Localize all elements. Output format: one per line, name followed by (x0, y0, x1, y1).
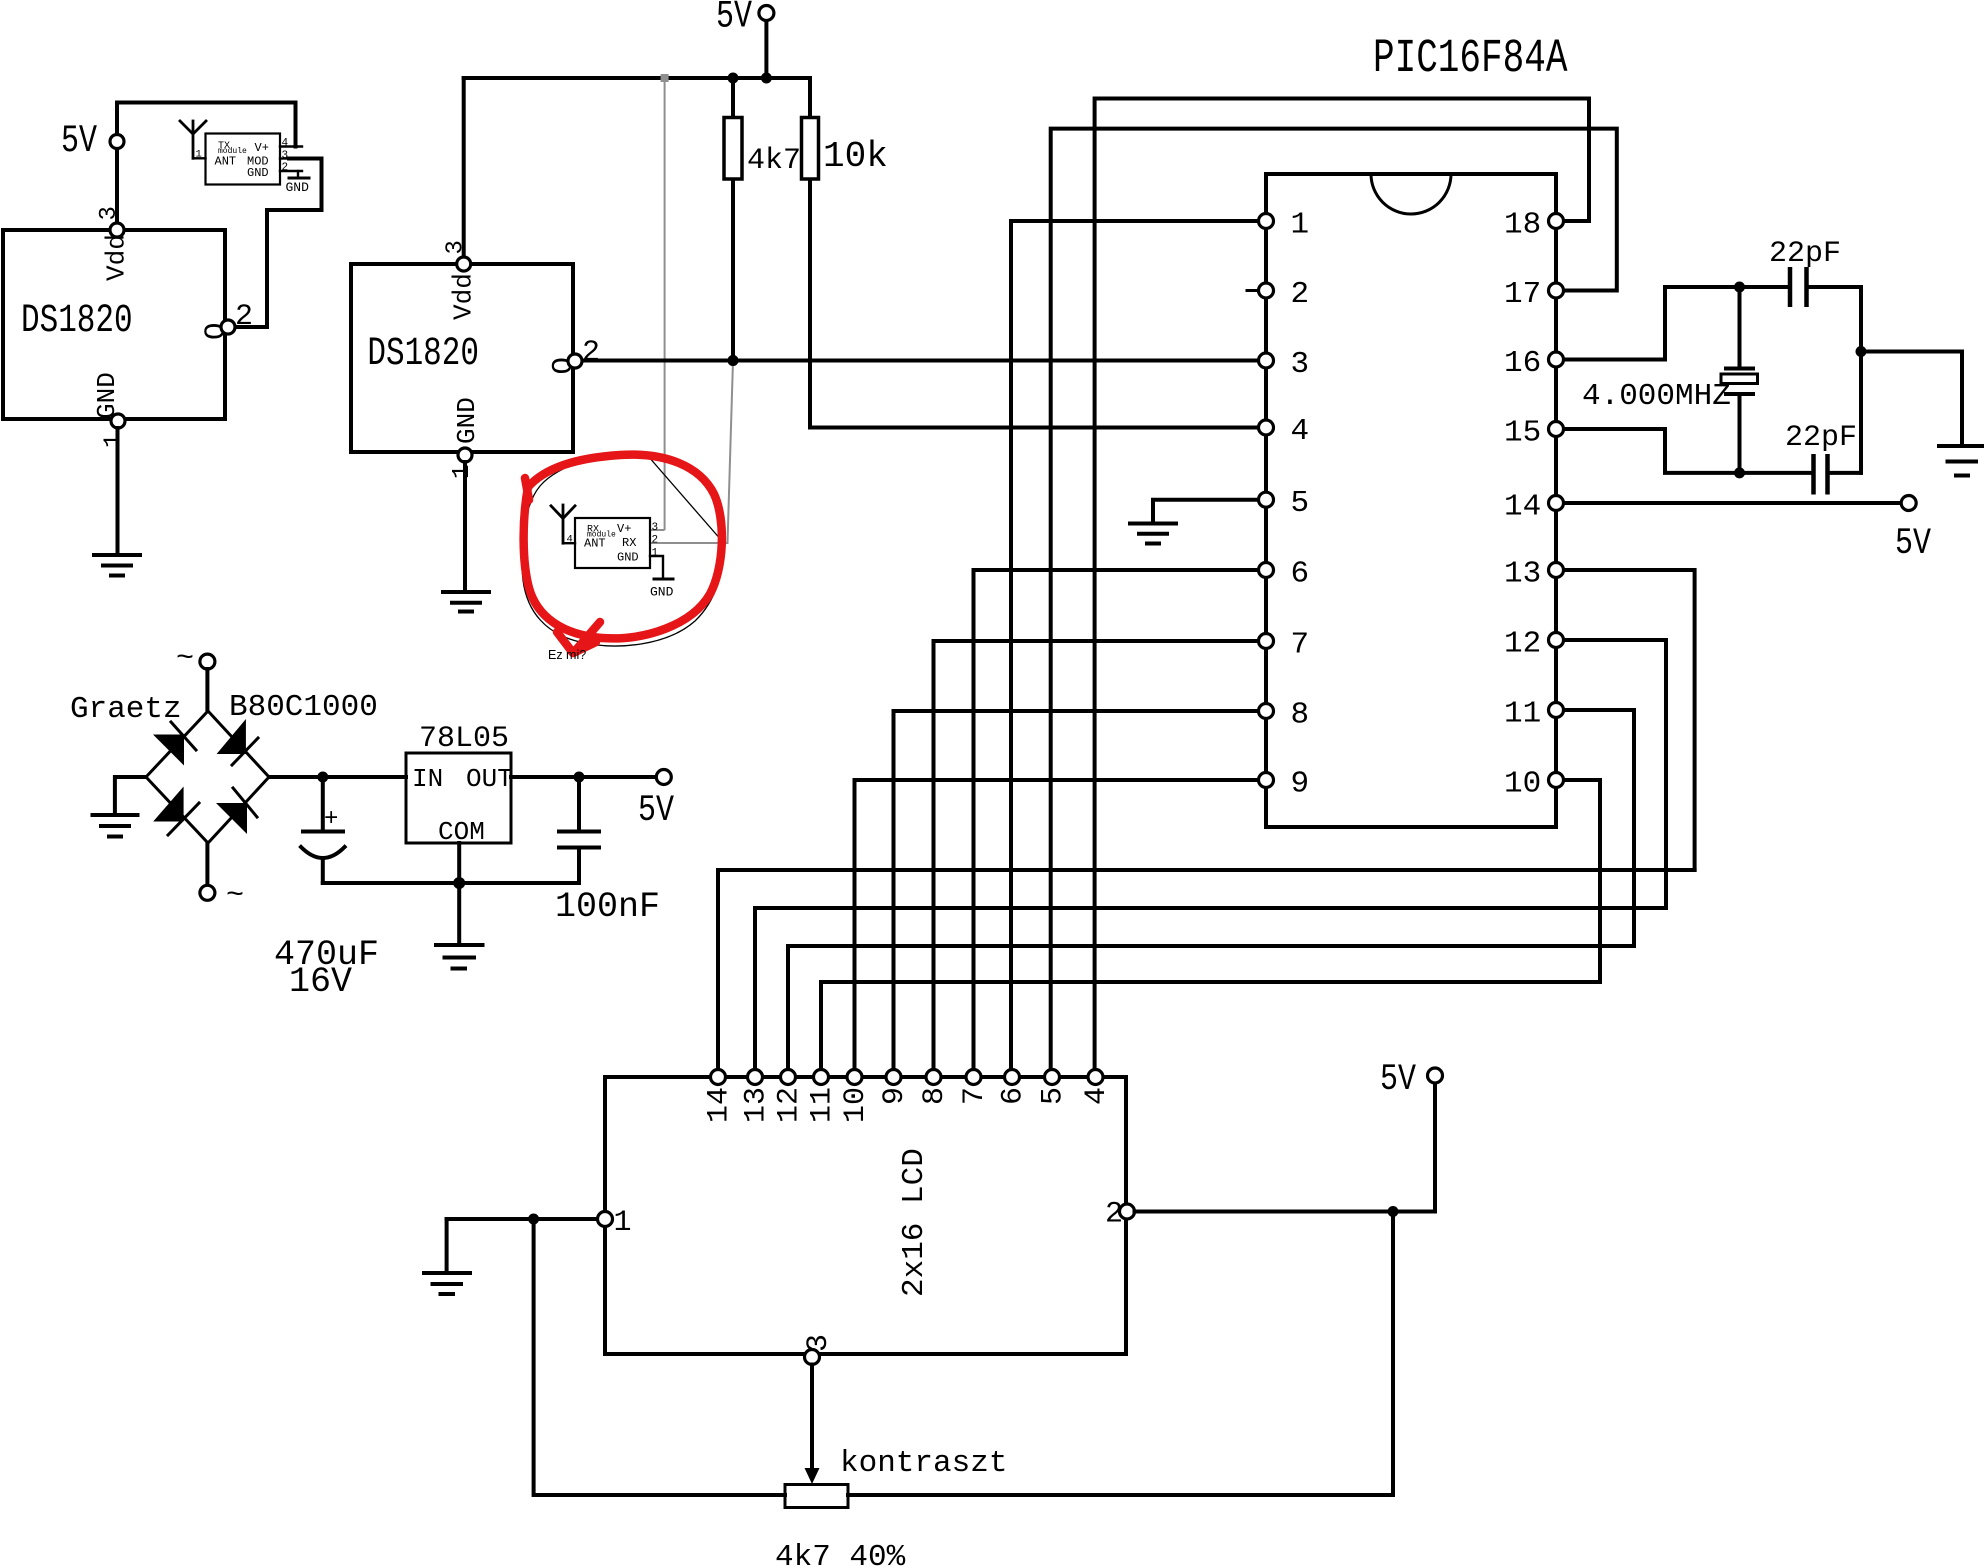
capacitor C2 22pF (bottom) plates (1811, 454, 1816, 495)
capacitor C1 22pF (top) plates (1788, 267, 1793, 307)
terminal circle AC in (bottom) (200, 885, 215, 900)
antenna of RX module (551, 506, 575, 519)
svg-text:1: 1 (449, 465, 476, 479)
wire bridge left corner to ground (115, 777, 146, 814)
svg-text:3: 3 (96, 206, 123, 220)
pin 8 of PIC (1259, 704, 1274, 719)
svg-text:1: 1 (652, 548, 659, 560)
pin 7 of PIC (1259, 634, 1274, 649)
pin 18 of PIC (1549, 214, 1564, 229)
svg-text:22pF: 22pF (1769, 237, 1841, 271)
wire PIC pin 5 (Vss) to ground (1153, 500, 1259, 523)
svg-text:+: + (324, 806, 338, 833)
svg-text:3: 3 (443, 240, 470, 254)
wire PIC pin 7 (RB1) to LCD pin 8 riser (934, 641, 1259, 1070)
svg-text:COM: COM (438, 817, 485, 847)
pin 9 of PIC (1259, 773, 1274, 788)
pin 14 of LCD (711, 1070, 726, 1085)
junction crystal top node (1734, 282, 1745, 293)
pin 12 of LCD (781, 1070, 796, 1085)
junction bridge output with 470uF (317, 772, 328, 783)
wire 5V terminal to TX module pin 4 (up and over) (117, 103, 296, 147)
wire PIC pin 12 (RB6) to LCD pin 13 line (1564, 640, 1667, 908)
ground symbol at bridge minus (93, 815, 138, 837)
wire LCD data line D4 (pin 11) to PIC pin 10 (821, 980, 1600, 984)
wire LCD data line D6 (pin 13) to PIC pin 12 (755, 906, 1666, 910)
wire top 5V rail (464, 76, 810, 80)
svg-text:2: 2 (235, 300, 253, 334)
sensor DS1820 U2 body (351, 264, 573, 452)
wire PIC pin 14 (Vdd) to 5V terminal (1564, 501, 1902, 505)
svg-text:Ez mi?: Ez mi? (548, 648, 586, 662)
svg-text:2: 2 (582, 336, 600, 370)
ground symbol below DS1820 U2 (443, 592, 489, 612)
gray net marker on rail (661, 74, 669, 82)
pin 2 of LCD (1120, 1204, 1135, 1219)
svg-text:DS1820: DS1820 (21, 297, 133, 343)
svg-text:2: 2 (652, 535, 659, 547)
terminal circle 5V (right) (1901, 496, 1916, 511)
svg-text:5V: 5V (1380, 1059, 1417, 1101)
svg-text:3: 3 (802, 1334, 836, 1352)
wire bottom rail 470uF to 100nF (323, 881, 579, 885)
wire DS1820#2 Q data line to PIC pin 3 (RA4) (582, 359, 1259, 363)
terminal circle 5V (top-left) (110, 135, 124, 149)
wire 78L05 OUT to 5V terminal (511, 775, 656, 779)
svg-text:78L05: 78L05 (419, 722, 509, 756)
wire PIC pin 10 (RB4) to LCD pin 11 line (1564, 780, 1601, 982)
pin 3 of PIC (1259, 353, 1274, 368)
svg-text:1: 1 (1291, 208, 1310, 243)
ground symbol left of LCD (424, 1273, 470, 1294)
junction COM with bottom rail (453, 877, 465, 889)
wire PIC pin 17 (RA0) over the top to LCD pin 5 riser (1051, 129, 1617, 1070)
wire PIC pin 6 (RB0) to LCD pin 7 riser (974, 570, 1259, 1070)
pin 2 stub of TX module (280, 170, 302, 172)
receiver module RX body (575, 518, 650, 568)
junction LCD pin1 node (528, 1214, 539, 1225)
wire LCD pin 3 (contrast) to pot wiper arrow (810, 1365, 814, 1471)
svg-text:GND: GND (617, 551, 639, 565)
svg-text:kontraszt: kontraszt (840, 1446, 1007, 1481)
svg-text:8: 8 (1291, 698, 1310, 733)
resistor R1 4k7 body (724, 118, 742, 180)
svg-text:1: 1 (614, 1206, 632, 1240)
svg-text:PIC16F84A: PIC16F84A (1373, 32, 1568, 86)
junction data line with 4k7 (redraw over gray) (728, 355, 739, 366)
wire bridge bottom to AC terminal (205, 843, 209, 885)
pin 17 of PIC (1549, 283, 1564, 298)
wire bridge plus output to 78L05 IN (269, 775, 406, 779)
display LCD body 2x16 (605, 1077, 1126, 1354)
resistor R2 10k body (802, 118, 819, 180)
pin 2 (Q) of DS1820 U2 (568, 354, 582, 368)
capacitor C3 470uF 16V (polarized) (301, 777, 345, 883)
hand-drawn red circle annotation (Ez mi?) (524, 455, 722, 639)
ground of TX module pin 2 (297, 171, 299, 177)
pin 5 of PIC (1259, 492, 1274, 507)
svg-text:10: 10 (839, 1087, 873, 1123)
pin 2 of PIC (1259, 283, 1274, 298)
pin 4 stub of TX module (280, 145, 302, 147)
svg-text:ANT: ANT (215, 155, 237, 169)
wire PIC pin 9 (RB3) to LCD pin 10 riser (855, 780, 1259, 1070)
svg-text:2x16 LCD: 2x16 LCD (897, 1148, 932, 1297)
svg-text:Vdd: Vdd (102, 234, 132, 281)
svg-text:14: 14 (1504, 490, 1541, 525)
wire PIC pin 13 (RB7) to LCD pin 14 line (1564, 570, 1695, 870)
svg-text:13: 13 (1504, 557, 1541, 592)
pin 1 of PIC (1259, 214, 1274, 229)
pin 3 (Vdd) of DS1820 U1 (110, 223, 124, 237)
junction rail with 4k7 (728, 73, 739, 84)
svg-text:5V: 5V (638, 790, 675, 832)
gray wire data junction to RX module RX pin 2 (650, 361, 733, 544)
svg-text:OUT: OUT (466, 764, 513, 794)
pin 3 stub of TX module (280, 157, 292, 159)
wire 5V terminal down to DS1820#1 Vdd pin 3 (115, 149, 119, 225)
svg-text:7: 7 (1291, 628, 1310, 663)
pin 6 of LCD (1005, 1070, 1020, 1085)
svg-text:9: 9 (878, 1087, 912, 1105)
svg-text:B80C1000: B80C1000 (229, 690, 378, 725)
pin 1 (GND) of DS1820 U1 (111, 414, 125, 428)
wire 5V terminal stem (top middle) (764, 21, 768, 79)
potentiometer P1 4k7 body (kontraszt) (785, 1485, 848, 1508)
regulator U4 78L05 body (406, 753, 511, 843)
terminal circle 5V (supply output) (656, 770, 671, 785)
svg-text:4: 4 (282, 138, 289, 150)
svg-text:5V: 5V (61, 120, 97, 164)
pin 13 of PIC (1549, 563, 1564, 578)
junction right vertical to ground branch (1856, 346, 1867, 357)
ground symbol below 78L05 (436, 945, 483, 969)
svg-text:15: 15 (1504, 416, 1541, 451)
diode D1 (top-left, points to top corner) (153, 735, 184, 766)
svg-text:6: 6 (997, 1087, 1031, 1105)
svg-text:22pF: 22pF (1785, 421, 1857, 455)
svg-text:11: 11 (1504, 697, 1541, 732)
ground symbol below DS1820 U1 (94, 555, 140, 576)
wire RX module GND pin 1 to ground (650, 556, 663, 578)
pin 15 of PIC (1549, 422, 1564, 437)
pin 2 (Q) of DS1820 U1 (221, 320, 235, 334)
svg-text:IN: IN (412, 764, 443, 794)
svg-text:3: 3 (652, 522, 659, 534)
junction crystal bottom node (1734, 467, 1745, 478)
node 5V supply terminal (top-left) (61, 120, 97, 164)
svg-text:GND: GND (452, 397, 482, 444)
svg-text:3: 3 (282, 150, 289, 162)
terminal circle 5V (top middle) (759, 6, 774, 21)
svg-text:1: 1 (101, 434, 128, 448)
resistor R1 4k7 leads (731, 78, 735, 118)
transmitter module TX body (206, 134, 281, 185)
pin 10 of LCD (847, 1070, 862, 1085)
wire PIC pin 1 (RA2) to LCD pin 6 riser (1011, 221, 1259, 1070)
svg-text:ANT: ANT (584, 537, 606, 551)
IC U3 PIC16F84A body (1266, 174, 1556, 827)
svg-text:100nF: 100nF (555, 887, 660, 927)
wire right vertical of crystal network (1859, 287, 1863, 473)
svg-text:2: 2 (282, 162, 289, 174)
pin 12 of PIC (1549, 633, 1564, 648)
svg-text:13: 13 (740, 1087, 774, 1123)
junction OUT with 100nF (574, 772, 585, 783)
wire pot right lead up to 5V node (848, 1212, 1393, 1496)
ground symbol top right (1939, 446, 1984, 476)
svg-text:10: 10 (1504, 767, 1541, 802)
svg-text:5V: 5V (1895, 523, 1932, 565)
svg-text:4.000MHZ: 4.000MHZ (1582, 379, 1731, 414)
wire AC top terminal to bridge (205, 669, 209, 711)
svg-text:16: 16 (1504, 346, 1541, 381)
pin 4 of PIC (1259, 420, 1274, 435)
ground of RX module pin 1 (654, 578, 673, 581)
svg-text:3: 3 (1291, 347, 1310, 382)
wire LCD pin 2 to 5V terminal (1135, 1084, 1436, 1212)
svg-text:5: 5 (1291, 486, 1310, 521)
wire LCD data line D5 (pin 12) to PIC pin 11 (788, 944, 1634, 948)
wire PIC pin 11 (RB5) to LCD pin 12 line (1564, 710, 1635, 946)
svg-text:5V: 5V (716, 0, 752, 39)
wire DS1820#1 GND to ground (116, 428, 120, 554)
gray wire rail to RX module V+ pin 3 (664, 78, 666, 530)
junction data line with 4k7 pull-up (728, 355, 739, 366)
svg-text:4: 4 (567, 534, 573, 546)
bridge rectifier B1 diamond (146, 711, 269, 843)
svg-text:Vdd: Vdd (448, 273, 478, 320)
terminal circle 5V (LCD supply) (1428, 1068, 1443, 1083)
wire DS1820#1 Q pin 2 to TX module MOD pin 3 (235, 159, 322, 328)
svg-text:10k: 10k (823, 136, 888, 177)
svg-text:4: 4 (1291, 414, 1310, 449)
diode D2 (top-right, points to right corner) (217, 719, 246, 754)
wire junction down to pot left lead (534, 1219, 785, 1495)
resistor R2 10k leads (808, 78, 812, 118)
pin 11 of PIC (1549, 703, 1564, 718)
svg-text:5: 5 (1037, 1087, 1071, 1105)
capacitor C4 100nF (559, 777, 599, 883)
pin 11 of LCD (814, 1070, 829, 1085)
pin 2 stub (RA3, unconnected) (1247, 289, 1261, 292)
wire PIC pin 8 (RB2) to LCD pin 9 riser (894, 711, 1259, 1070)
junction LCD pin2 node with pot (1388, 1206, 1399, 1217)
svg-text:RX: RX (622, 536, 636, 550)
svg-text:Graetz: Graetz (70, 692, 182, 727)
wire 78L05 COM down to rail and ground (457, 843, 461, 944)
wire top rail down to DS1820#2 Vdd pin 3 (462, 78, 466, 258)
svg-text:DS1820: DS1820 (367, 330, 479, 376)
svg-text:16V: 16V (289, 962, 352, 1002)
hand-drawn thin sketch circle annotation (522, 454, 723, 646)
pin 1 of LCD (598, 1212, 613, 1227)
pin 3 of LCD (805, 1350, 820, 1365)
pin 6 of PIC (1259, 563, 1274, 578)
svg-text:GND: GND (286, 180, 310, 195)
svg-text:V+: V+ (617, 522, 631, 536)
wire 10k bottom to PIC pin 4 (MCLR) (810, 426, 1259, 430)
svg-text:9: 9 (1291, 767, 1310, 802)
svg-text:7: 7 (958, 1087, 992, 1105)
pin 9 of LCD (886, 1070, 901, 1085)
sensor DS1820 U1 body (3, 230, 225, 419)
wire PIC pin 15 (OSC2) to crystal bottom node (1564, 429, 1812, 473)
svg-text:2: 2 (1291, 277, 1310, 312)
svg-text:~: ~ (226, 879, 244, 913)
antenna of TX module (180, 121, 206, 134)
wire DS1820#2 GND to ground (463, 462, 467, 591)
pin 8 of LCD (926, 1070, 941, 1085)
pin 16 of PIC (1549, 352, 1564, 367)
junction rail with 5V stem (761, 73, 772, 84)
diode D4 (bottom-right, points to right corner) (216, 803, 247, 834)
svg-text:GND: GND (650, 585, 674, 600)
svg-text:GND: GND (92, 372, 122, 419)
wire RX antenna to ANT pin 4 (563, 542, 575, 544)
wire TX antenna to ANT pin 1 (193, 157, 206, 159)
svg-text:17: 17 (1504, 277, 1541, 312)
svg-text:~: ~ (176, 642, 194, 676)
svg-text:GND: GND (247, 166, 269, 180)
svg-text:V+: V+ (255, 141, 269, 155)
wire PIC pin 16 (OSC1) to crystal top node (1564, 287, 1789, 360)
crystal X1 4.000MHZ (1721, 287, 1758, 473)
pin 7 of LCD (966, 1070, 981, 1085)
wire LCD data line D7 (pin 14) to PIC pin 13 (718, 868, 1695, 872)
wire ground drop (left of LCD) (445, 1219, 449, 1272)
pin 3 (Vdd) of DS1820 U2 (457, 257, 471, 271)
pin 13 of LCD (748, 1070, 763, 1085)
pin 1 (GND) of DS1820 U2 (458, 448, 472, 462)
pin 14 of PIC (1549, 496, 1564, 511)
wire C1 right plate to right vertical (1809, 285, 1862, 289)
svg-text:6: 6 (1291, 557, 1310, 592)
svg-text:4k7 40%: 4k7 40% (775, 1540, 906, 1568)
diode D3 (bottom-left, points to bottom corner) (153, 787, 183, 822)
svg-text:11: 11 (806, 1087, 840, 1123)
IC U3 notch (1371, 174, 1451, 214)
pin 4 of LCD (1088, 1070, 1103, 1085)
wire PIC pin 18 (RA1) over the top to LCD pin 4 riser (1095, 99, 1589, 1071)
svg-text:4: 4 (1080, 1087, 1114, 1105)
terminal circle AC in (top) (200, 654, 215, 669)
pot wiper arrowhead (805, 1468, 820, 1484)
svg-text:18: 18 (1504, 208, 1541, 243)
hand-drawn red arrow annotation (557, 622, 600, 653)
svg-text:1: 1 (196, 149, 202, 161)
svg-text:2: 2 (1105, 1198, 1123, 1232)
svg-text:4k7: 4k7 (747, 144, 801, 178)
svg-text:12: 12 (1504, 627, 1541, 662)
wire C2 right plate to right vertical (1829, 471, 1861, 475)
pin 10 of PIC (1549, 773, 1564, 788)
wire LCD pin 1 to ground and contrast pot (447, 1217, 598, 1221)
ground symbol at PIC pin 5 (1130, 524, 1176, 544)
gray wire RX module V+ pin 3 stub (650, 529, 665, 531)
pin 5 of LCD (1045, 1070, 1060, 1085)
svg-text:8: 8 (918, 1087, 952, 1105)
svg-text:14: 14 (703, 1087, 737, 1123)
wire crystal network to ground (top right) (1861, 352, 1962, 445)
svg-text:12: 12 (773, 1087, 807, 1123)
